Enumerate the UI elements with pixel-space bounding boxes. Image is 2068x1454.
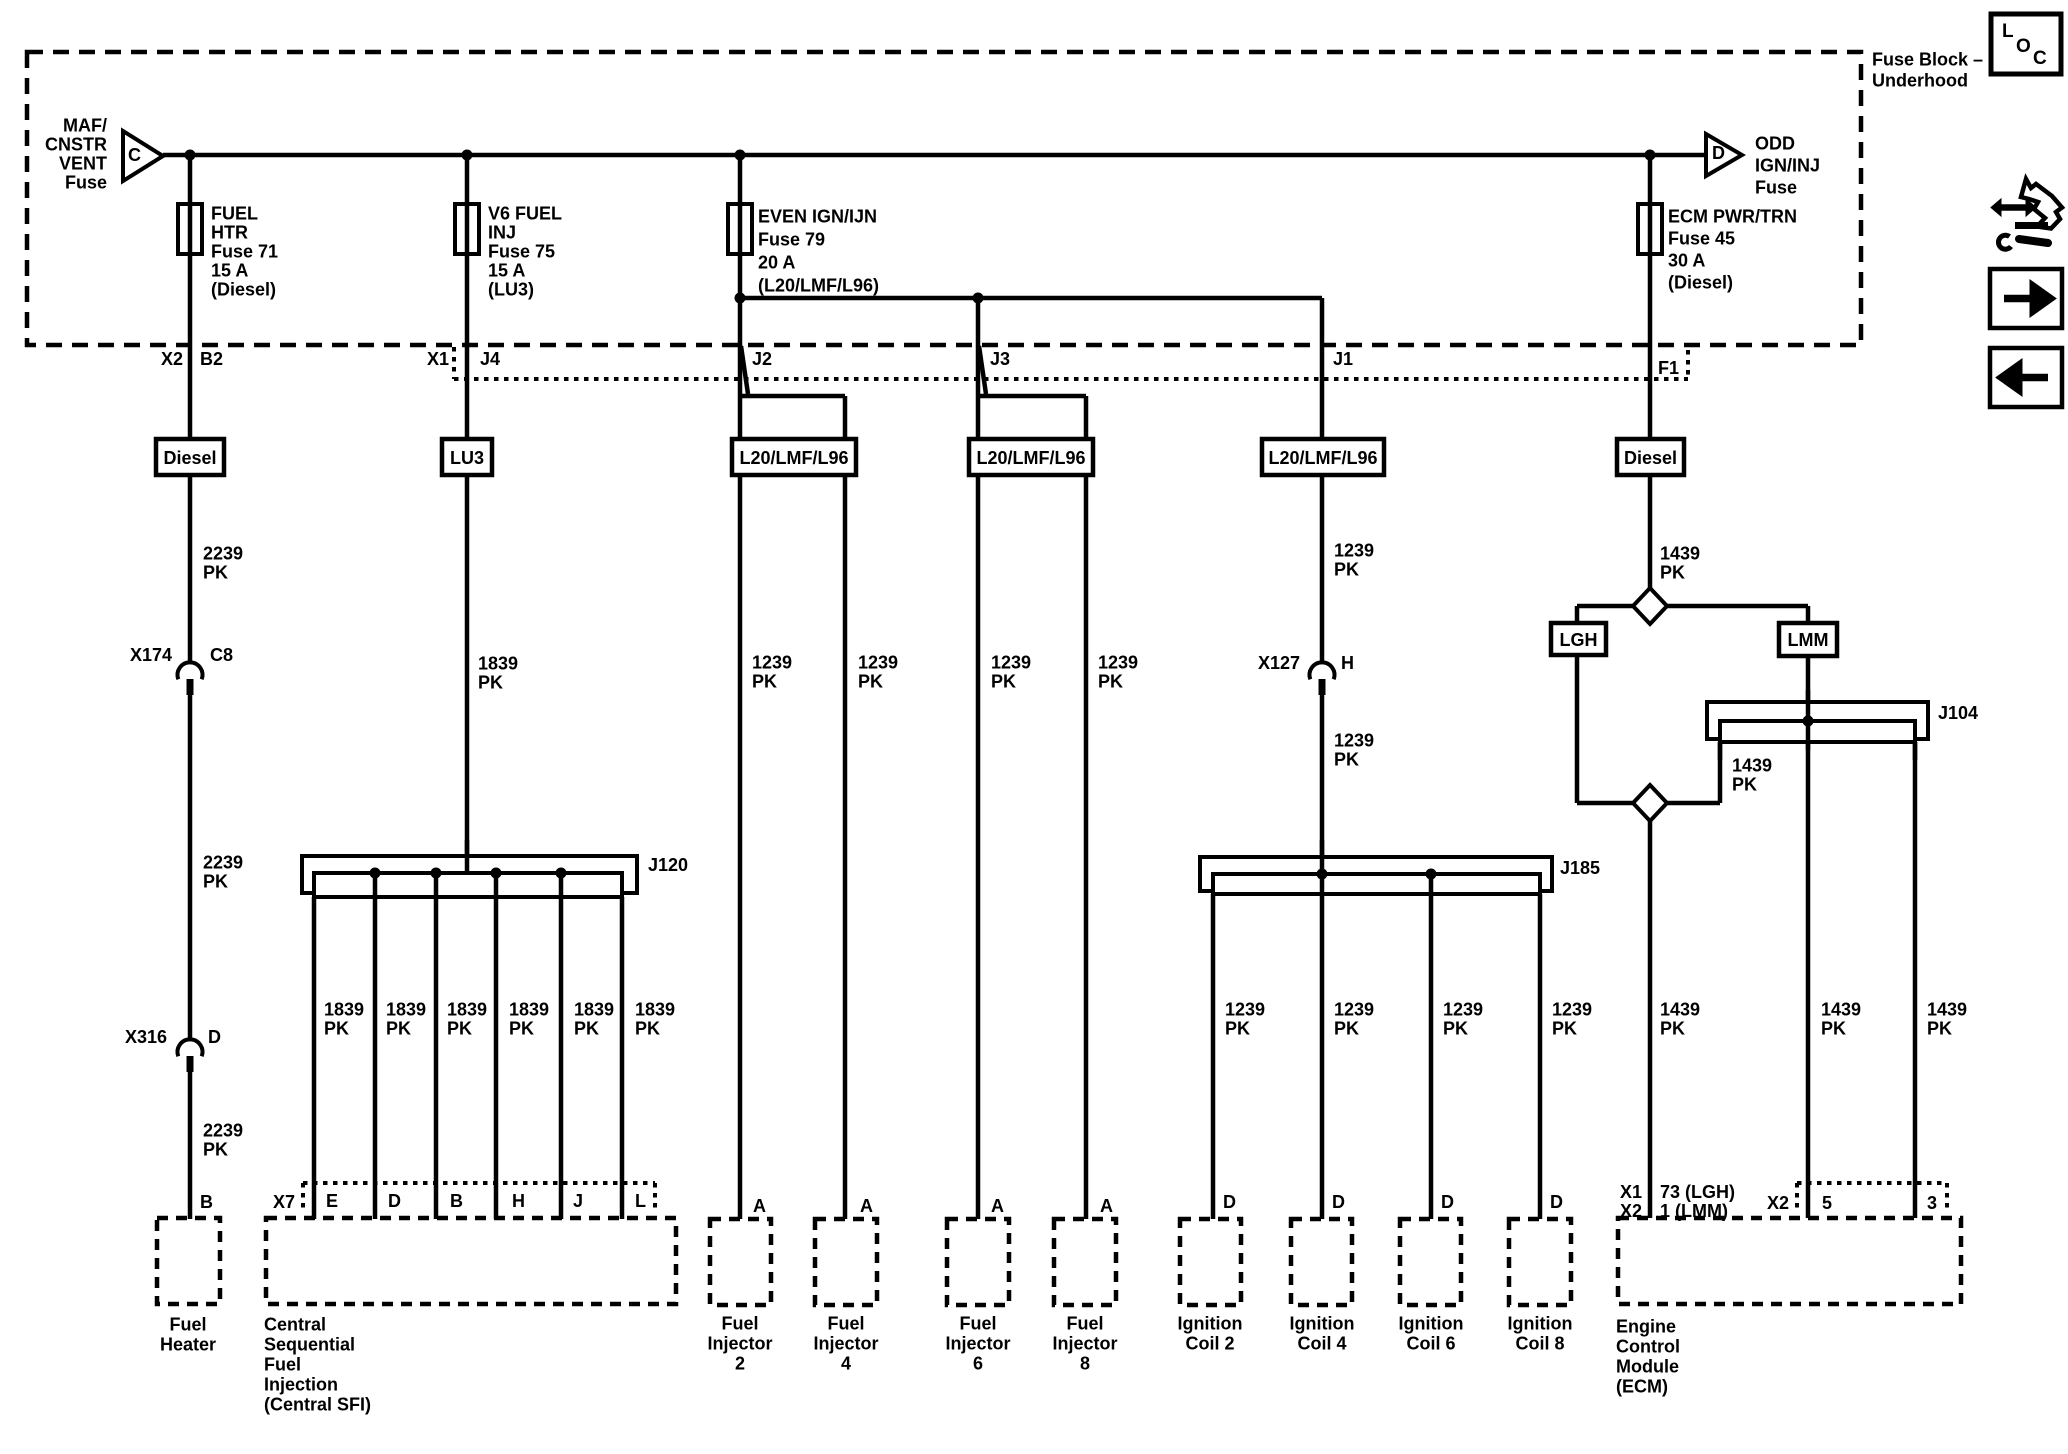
svg-text:PK: PK xyxy=(203,1140,228,1160)
svg-text:15 A: 15 A xyxy=(488,261,525,281)
svg-text:J3: J3 xyxy=(990,349,1010,369)
svg-text:ODD: ODD xyxy=(1755,134,1795,154)
svg-text:PK: PK xyxy=(1927,1019,1952,1039)
svg-text:J120: J120 xyxy=(648,855,688,875)
svg-text:1839: 1839 xyxy=(386,1000,426,1020)
svg-text:1239: 1239 xyxy=(752,653,792,673)
svg-text:Fuel: Fuel xyxy=(264,1355,301,1375)
svg-text:Coil 8: Coil 8 xyxy=(1515,1334,1564,1354)
svg-text:D: D xyxy=(1550,1192,1563,1212)
svg-text:PK: PK xyxy=(1098,672,1123,692)
svg-text:1839: 1839 xyxy=(509,1000,549,1020)
svg-text:D: D xyxy=(1712,143,1725,163)
svg-text:1439: 1439 xyxy=(1821,1000,1861,1020)
svg-text:C8: C8 xyxy=(210,645,233,665)
svg-text:J4: J4 xyxy=(480,349,500,369)
svg-text:H: H xyxy=(512,1191,525,1211)
svg-text:Fuel: Fuel xyxy=(827,1314,864,1334)
svg-text:V6 FUEL: V6 FUEL xyxy=(488,204,562,224)
svg-text:X2: X2 xyxy=(1767,1193,1789,1213)
svg-text:Underhood: Underhood xyxy=(1872,71,1968,91)
svg-text:1839: 1839 xyxy=(574,1000,614,1020)
svg-text:1439: 1439 xyxy=(1660,544,1700,564)
svg-text:PK: PK xyxy=(1552,1019,1577,1039)
svg-text:CNSTR: CNSTR xyxy=(45,135,107,155)
svg-text:J1: J1 xyxy=(1333,349,1353,369)
svg-text:PK: PK xyxy=(203,872,228,892)
svg-text:1239: 1239 xyxy=(1334,1000,1374,1020)
svg-text:VENT: VENT xyxy=(59,154,107,174)
svg-text:LGH: LGH xyxy=(1560,630,1598,650)
svg-text:Coil 4: Coil 4 xyxy=(1297,1334,1346,1354)
svg-text:PK: PK xyxy=(1660,563,1685,583)
svg-text:D: D xyxy=(1223,1192,1236,1212)
svg-text:PK: PK xyxy=(1334,1019,1359,1039)
svg-text:Fuel: Fuel xyxy=(721,1314,758,1334)
svg-text:ECM PWR/TRN: ECM PWR/TRN xyxy=(1668,207,1797,227)
svg-text:PK: PK xyxy=(324,1019,349,1039)
svg-text:PK: PK xyxy=(1225,1019,1250,1039)
svg-text:PK: PK xyxy=(858,672,883,692)
svg-text:1239: 1239 xyxy=(1225,1000,1265,1020)
svg-text:J185: J185 xyxy=(1560,858,1600,878)
svg-text:(LU3): (LU3) xyxy=(488,280,534,300)
svg-text:Coil 6: Coil 6 xyxy=(1406,1334,1455,1354)
svg-text:X174: X174 xyxy=(130,645,172,665)
svg-text:Sequential: Sequential xyxy=(264,1335,355,1355)
svg-text:PK: PK xyxy=(1660,1019,1685,1039)
svg-text:B2: B2 xyxy=(200,349,223,369)
svg-text:A: A xyxy=(753,1196,766,1216)
svg-text:Fuel: Fuel xyxy=(169,1315,206,1335)
svg-text:A: A xyxy=(1100,1196,1113,1216)
svg-text:PK: PK xyxy=(1334,750,1359,770)
svg-text:1 (LMM): 1 (LMM) xyxy=(1660,1201,1728,1221)
svg-text:D: D xyxy=(388,1191,401,1211)
svg-text:Central: Central xyxy=(264,1315,326,1335)
svg-text:Fuse 45: Fuse 45 xyxy=(1668,229,1735,249)
svg-text:X1: X1 xyxy=(427,349,449,369)
svg-text:LU3: LU3 xyxy=(450,448,484,468)
svg-text:1239: 1239 xyxy=(1098,653,1138,673)
svg-text:X2: X2 xyxy=(161,349,183,369)
svg-text:FUEL: FUEL xyxy=(211,204,258,224)
svg-text:PK: PK xyxy=(447,1019,472,1039)
svg-text:Ignition: Ignition xyxy=(1290,1314,1355,1334)
svg-text:1439: 1439 xyxy=(1732,756,1772,776)
svg-text:F1: F1 xyxy=(1658,358,1679,378)
svg-text:Heater: Heater xyxy=(160,1335,216,1355)
svg-text:Module: Module xyxy=(1616,1357,1679,1377)
svg-text:20 A: 20 A xyxy=(758,253,795,273)
svg-text:D: D xyxy=(208,1027,221,1047)
svg-text:8: 8 xyxy=(1080,1354,1090,1374)
svg-text:Injection: Injection xyxy=(264,1375,338,1395)
svg-text:Fuse: Fuse xyxy=(1755,178,1797,198)
svg-text:L20/LMF/L96: L20/LMF/L96 xyxy=(976,448,1085,468)
svg-text:2239: 2239 xyxy=(203,853,243,873)
svg-text:Diesel: Diesel xyxy=(1624,448,1677,468)
svg-text:1239: 1239 xyxy=(1334,731,1374,751)
svg-text:1839: 1839 xyxy=(447,1000,487,1020)
svg-text:(Diesel): (Diesel) xyxy=(1668,273,1733,293)
svg-text:L: L xyxy=(2002,21,2014,42)
svg-text:1839: 1839 xyxy=(635,1000,675,1020)
svg-text:EVEN IGN/IJN: EVEN IGN/IJN xyxy=(758,207,877,227)
svg-text:Fuel: Fuel xyxy=(959,1314,996,1334)
svg-text:LMM: LMM xyxy=(1788,630,1829,650)
svg-text:J: J xyxy=(573,1191,583,1211)
svg-text:L20/LMF/L96: L20/LMF/L96 xyxy=(739,448,848,468)
svg-text:PK: PK xyxy=(752,672,777,692)
svg-text:PK: PK xyxy=(509,1019,534,1039)
svg-text:X2: X2 xyxy=(1620,1201,1642,1221)
svg-text:Fuse 79: Fuse 79 xyxy=(758,230,825,250)
svg-text:1439: 1439 xyxy=(1660,1000,1700,1020)
svg-text:Injector: Injector xyxy=(945,1334,1010,1354)
svg-text:A: A xyxy=(991,1196,1004,1216)
svg-text:5: 5 xyxy=(1822,1193,1832,1213)
svg-text:B: B xyxy=(200,1192,213,1212)
svg-text:IGN/INJ: IGN/INJ xyxy=(1755,156,1820,176)
svg-text:PK: PK xyxy=(203,563,228,583)
svg-text:15 A: 15 A xyxy=(211,261,248,281)
svg-text:3: 3 xyxy=(1927,1193,1937,1213)
svg-text:Injector: Injector xyxy=(707,1334,772,1354)
svg-text:(L20/LMF/L96): (L20/LMF/L96) xyxy=(758,276,879,296)
svg-text:Injector: Injector xyxy=(813,1334,878,1354)
svg-text:MAF/: MAF/ xyxy=(63,116,107,136)
svg-text:C: C xyxy=(128,145,141,165)
svg-text:1239: 1239 xyxy=(1334,541,1374,561)
svg-text:73 (LGH): 73 (LGH) xyxy=(1660,1182,1735,1202)
svg-text:1239: 1239 xyxy=(858,653,898,673)
svg-text:(Diesel): (Diesel) xyxy=(211,280,276,300)
svg-text:PK: PK xyxy=(1732,775,1757,795)
svg-text:Injector: Injector xyxy=(1052,1334,1117,1354)
svg-text:2239: 2239 xyxy=(203,1121,243,1141)
svg-text:2: 2 xyxy=(735,1354,745,1374)
svg-text:4: 4 xyxy=(841,1354,851,1374)
svg-text:1239: 1239 xyxy=(991,653,1031,673)
svg-text:Control: Control xyxy=(1616,1337,1680,1357)
svg-text:(ECM): (ECM) xyxy=(1616,1377,1668,1397)
svg-text:H: H xyxy=(1341,653,1354,673)
svg-text:PK: PK xyxy=(1334,560,1359,580)
svg-text:PK: PK xyxy=(478,673,503,693)
svg-text:1439: 1439 xyxy=(1927,1000,1967,1020)
svg-text:Fuse 75: Fuse 75 xyxy=(488,242,555,262)
svg-text:PK: PK xyxy=(386,1019,411,1039)
svg-text:Fuel: Fuel xyxy=(1066,1314,1103,1334)
svg-text:1239: 1239 xyxy=(1443,1000,1483,1020)
svg-text:Fuse: Fuse xyxy=(65,173,107,193)
svg-text:1239: 1239 xyxy=(1552,1000,1592,1020)
svg-text:D: D xyxy=(1332,1192,1345,1212)
svg-text:X7: X7 xyxy=(273,1192,295,1212)
svg-text:1839: 1839 xyxy=(478,654,518,674)
svg-text:Engine: Engine xyxy=(1616,1317,1676,1337)
svg-text:PK: PK xyxy=(635,1019,660,1039)
svg-text:1839: 1839 xyxy=(324,1000,364,1020)
svg-text:X316: X316 xyxy=(125,1027,167,1047)
svg-text:C: C xyxy=(2033,48,2047,69)
svg-text:Coil 2: Coil 2 xyxy=(1185,1334,1234,1354)
svg-text:Ignition: Ignition xyxy=(1178,1314,1243,1334)
svg-text:PK: PK xyxy=(1443,1019,1468,1039)
svg-text:E: E xyxy=(326,1191,338,1211)
svg-text:Ignition: Ignition xyxy=(1399,1314,1464,1334)
svg-text:Fuse 71: Fuse 71 xyxy=(211,242,278,262)
svg-text:(Central SFI): (Central SFI) xyxy=(264,1395,371,1415)
svg-text:Diesel: Diesel xyxy=(163,448,216,468)
svg-text:PK: PK xyxy=(1821,1019,1846,1039)
svg-text:J104: J104 xyxy=(1938,703,1978,723)
svg-text:HTR: HTR xyxy=(211,223,248,243)
svg-text:PK: PK xyxy=(574,1019,599,1039)
svg-text:PK: PK xyxy=(991,672,1016,692)
svg-text:X127: X127 xyxy=(1258,653,1300,673)
svg-text:D: D xyxy=(1441,1192,1454,1212)
svg-text:A: A xyxy=(860,1196,873,1216)
svg-text:6: 6 xyxy=(973,1354,983,1374)
svg-text:X1: X1 xyxy=(1620,1182,1642,1202)
svg-text:2239: 2239 xyxy=(203,544,243,564)
svg-text:Fuse Block –: Fuse Block – xyxy=(1872,50,1983,70)
svg-text:O: O xyxy=(2016,36,2031,57)
svg-text:B: B xyxy=(450,1191,463,1211)
svg-text:30 A: 30 A xyxy=(1668,251,1705,271)
svg-text:J2: J2 xyxy=(752,349,772,369)
svg-text:Ignition: Ignition xyxy=(1508,1314,1573,1334)
svg-text:L20/LMF/L96: L20/LMF/L96 xyxy=(1268,448,1377,468)
svg-text:INJ: INJ xyxy=(488,223,516,243)
svg-text:L: L xyxy=(635,1191,646,1211)
